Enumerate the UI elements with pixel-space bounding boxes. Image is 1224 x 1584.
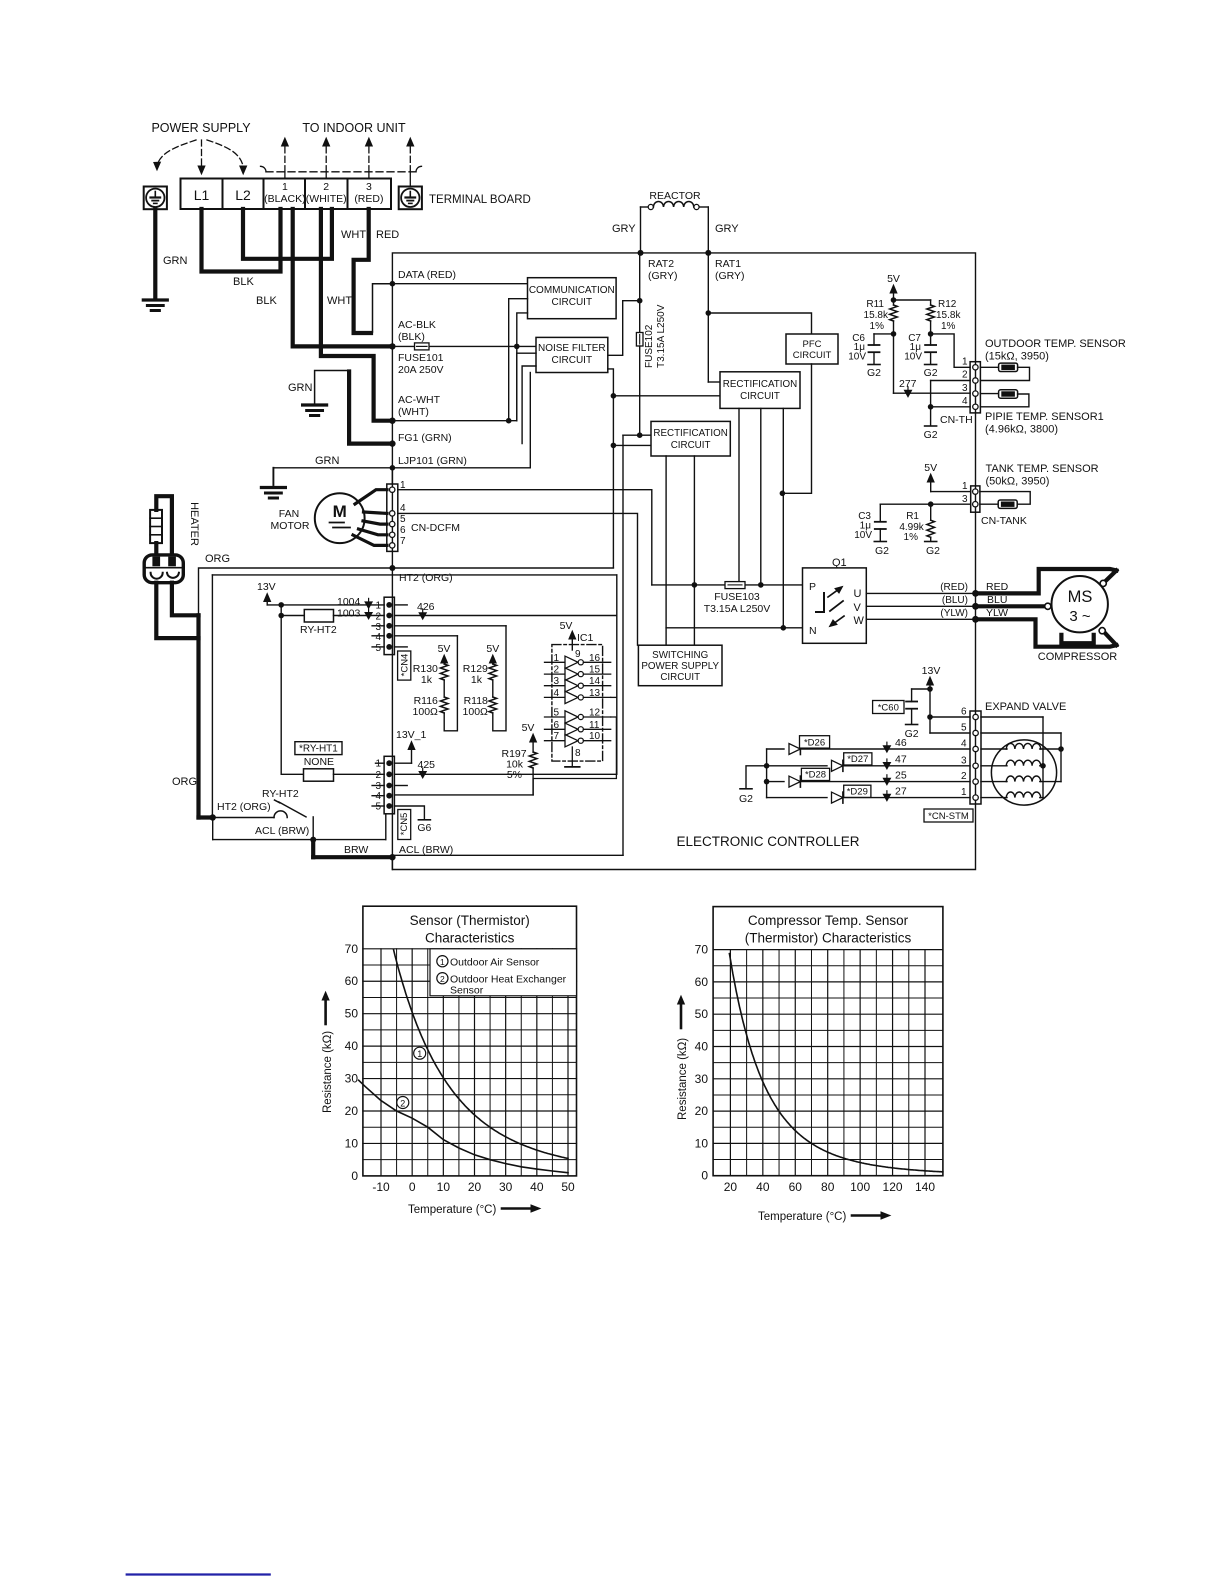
svg-text:R12: R12 [938, 299, 957, 310]
inverter gate 7 of IC1 [545, 740, 566, 742]
svg-text:0: 0 [409, 1180, 416, 1194]
wire FG1 riser to noise filter [522, 366, 536, 444]
heater plug lead left [156, 583, 198, 638]
svg-text:L1: L1 [194, 187, 210, 203]
wire FG1 GRN to ground [349, 372, 390, 444]
svg-text:BLK: BLK [233, 276, 254, 288]
switch RY-HT2 [213, 817, 274, 819]
svg-text:HT2 (ORG): HT2 (ORG) [399, 572, 453, 584]
ground G6 [418, 819, 430, 821]
block NOISE FILTER CIRCUIT [536, 337, 608, 372]
svg-text:13V: 13V [922, 665, 941, 677]
svg-text:1: 1 [417, 1049, 422, 1059]
svg-text:50: 50 [695, 1007, 709, 1021]
svg-text:14: 14 [589, 676, 601, 687]
svg-text:5: 5 [961, 723, 967, 734]
wire 13V bus down [280, 605, 282, 774]
terminal board box 1 (BLACK) [264, 179, 306, 210]
heater lead top loop [156, 496, 172, 555]
svg-text:CIRCUIT: CIRCUIT [552, 297, 593, 308]
compressor terminal bottom-right [1099, 628, 1105, 634]
svg-text:Temperature (°C): Temperature (°C) [758, 1211, 846, 1223]
svg-text:AC-WHT: AC-WHT [398, 394, 441, 406]
wire BLU to compressor [976, 604, 1045, 608]
block SWITCHING POWER SUPPLY CIRCUIT [638, 645, 722, 686]
svg-text:13: 13 [589, 688, 601, 699]
svg-text:13V_1: 13V_1 [396, 729, 427, 741]
svg-text:MS: MS [1068, 588, 1093, 606]
svg-text:140: 140 [915, 1180, 935, 1194]
svg-text:60: 60 [789, 1180, 803, 1194]
wire CN5 pin5 row to G6 [372, 805, 384, 807]
dashed arrow up terminal 2 [325, 146, 327, 172]
connector CN5 [384, 756, 394, 814]
svg-text:2: 2 [323, 181, 329, 193]
svg-text:1003: 1003 [337, 608, 361, 620]
expand valve coil row2 [981, 765, 1007, 767]
svg-text:BRW: BRW [344, 844, 368, 856]
svg-text:R11: R11 [866, 299, 884, 310]
wire rectification1 output A to P bus [738, 408, 740, 585]
svg-text:47: 47 [895, 754, 907, 766]
svg-text:T3.15A L250V: T3.15A L250V [704, 603, 771, 615]
svg-text:POWER SUPPLY: POWER SUPPLY [641, 661, 719, 672]
svg-text:70: 70 [695, 943, 709, 957]
ground G2 diodes [746, 766, 767, 789]
svg-text:ACL (BRW): ACL (BRW) [399, 844, 453, 856]
svg-text:FAN: FAN [279, 508, 299, 520]
svg-text:LJP101 (GRN): LJP101 (GRN) [398, 455, 467, 467]
left graph marker 2 [397, 1097, 409, 1109]
svg-text:40: 40 [345, 1039, 359, 1053]
wire AC-BLK junction hook to noise filter [516, 346, 518, 420]
svg-text:TERMINAL BOARD: TERMINAL BOARD [429, 194, 531, 206]
svg-text:G2: G2 [926, 545, 940, 557]
wire L1 to terminal1 BLK [202, 209, 281, 272]
svg-text:REACTOR: REACTOR [649, 190, 701, 202]
svg-text:(GRY): (GRY) [715, 270, 745, 282]
svg-text:20: 20 [724, 1180, 738, 1194]
wire node to controller bottom corner [391, 857, 393, 869]
svg-text:12: 12 [589, 708, 601, 719]
svg-text:*CN5: *CN5 [399, 813, 410, 836]
svg-text:Resistance (kΩ): Resistance (kΩ) [677, 1038, 689, 1120]
svg-text:(Thermistor) Characteristics: (Thermistor) Characteristics [745, 931, 912, 946]
compressor motor circle MS 3~ [1052, 576, 1108, 632]
wire CN-DCFM pin1 to P bus corner [398, 490, 652, 585]
node W on controller edge [972, 616, 979, 623]
left graph frame [363, 906, 577, 1176]
svg-text:BLK: BLK [256, 295, 277, 307]
svg-text:GRY: GRY [612, 223, 636, 235]
svg-text:25: 25 [895, 769, 907, 781]
wire motor to CN-DCFM pin4 [364, 512, 388, 513]
svg-text:50: 50 [561, 1180, 575, 1194]
left graph legend box [430, 949, 577, 996]
svg-text:*D29: *D29 [847, 787, 868, 798]
dashed pointer power supply to ground-left [157, 140, 196, 166]
svg-text:1k: 1k [471, 674, 483, 686]
wire ACL inner box bottom [392, 854, 623, 856]
svg-text:10V: 10V [848, 352, 866, 363]
svg-text:1k: 1k [421, 674, 433, 686]
node R12 C7 [928, 331, 934, 337]
inverter gate 2 of IC1 [545, 673, 566, 675]
capacitor C6 [874, 333, 894, 335]
capacitor C7 [930, 334, 932, 345]
boxed label *D28 [801, 768, 829, 780]
svg-text:(4.96kΩ, 3800): (4.96kΩ, 3800) [985, 424, 1058, 436]
svg-text:4: 4 [400, 503, 406, 514]
block RECTIFICATION CIRCUIT upper [720, 372, 800, 409]
svg-text:RY-HT2: RY-HT2 [262, 788, 299, 800]
wire CN-TANK pin1 [931, 491, 971, 493]
svg-text:3: 3 [366, 181, 372, 193]
svg-text:(WHT): (WHT) [398, 406, 429, 418]
svg-text:(BLACK): (BLACK) [264, 193, 305, 205]
svg-text:80: 80 [821, 1180, 835, 1194]
svg-text:CN-TANK: CN-TANK [981, 515, 1027, 527]
wire rectification1 output B to P bus [760, 408, 762, 585]
svg-text:16: 16 [589, 653, 601, 664]
inverter gate 3 of IC1 [545, 685, 566, 687]
svg-text:CIRCUIT: CIRCUIT [660, 672, 700, 683]
svg-text:*D26: *D26 [804, 737, 825, 748]
fuse FUSE103 [725, 582, 745, 589]
connector CN-TANK [971, 486, 980, 512]
terminal board box 2 (WHITE) [305, 179, 348, 210]
ground symbol FG1 [303, 403, 327, 406]
wire LJP101 GRN to ground near fan motor [273, 467, 392, 469]
svg-text:NOISE FILTER: NOISE FILTER [538, 343, 606, 354]
svg-text:15: 15 [589, 665, 601, 676]
svg-text:5V: 5V [924, 462, 937, 474]
wire RED to compressor [976, 569, 1117, 593]
wire ORG corner to relay area [199, 815, 212, 819]
wire P bus [652, 584, 803, 586]
svg-text:4: 4 [961, 739, 967, 750]
svg-text:POWER SUPPLY: POWER SUPPLY [151, 121, 251, 135]
svg-text:1: 1 [962, 481, 968, 492]
wire Q1 U output [866, 592, 973, 594]
wire relay box right edge down to 425 line [616, 575, 618, 774]
boxed label *D26 [800, 736, 830, 748]
svg-text:10: 10 [589, 731, 601, 742]
diode D26 row pin4 [767, 748, 784, 750]
svg-text:PFC: PFC [803, 339, 822, 350]
svg-text:0: 0 [351, 1169, 358, 1183]
expand valve circle [991, 740, 1056, 805]
wire comm to AC-BLK [517, 313, 528, 347]
connector CN-TH [970, 362, 980, 413]
svg-text:6: 6 [961, 707, 967, 718]
svg-text:27: 27 [895, 785, 907, 797]
svg-text:40: 40 [695, 1040, 709, 1054]
wire CN4 pin3 row to R118 loop [372, 625, 384, 627]
dashed arrow up terminal 1 [284, 146, 286, 172]
compressor terminal left [1045, 603, 1051, 609]
connector CN4 [384, 597, 394, 654]
boxed label *CN4 (rotated) [398, 651, 411, 680]
right graph frame [713, 907, 943, 1176]
wire relay box left edge riser [211, 575, 213, 818]
wire ACL thin line [212, 818, 214, 840]
svg-text:4: 4 [962, 396, 968, 407]
svg-text:T3.15A L250V: T3.15A L250V [656, 304, 667, 368]
wire HT2 ORG thin from controller [199, 568, 391, 615]
svg-text:2: 2 [440, 974, 445, 984]
arrow 5V sensor rail [893, 291, 895, 300]
svg-text:R1: R1 [906, 511, 919, 522]
svg-text:60: 60 [695, 975, 709, 989]
wire R12 to CN-TH pin1 [931, 334, 971, 367]
svg-text:1%: 1% [870, 321, 885, 332]
svg-text:0: 0 [701, 1169, 708, 1183]
wire CN4 pin5 stub [372, 646, 384, 648]
wire CN5 pin3 stubs [372, 785, 384, 787]
svg-text:7: 7 [400, 536, 406, 547]
svg-text:SWITCHING: SWITCHING [652, 650, 708, 661]
boxed label *CN5 (rotated) [398, 810, 411, 840]
svg-text:(GRY): (GRY) [648, 270, 678, 282]
heater plug lead right [172, 583, 199, 616]
fuse FUSE101 [392, 345, 536, 347]
wire AC-WHT riser to noise filter [517, 353, 536, 421]
wire HT2 rail corner [392, 567, 613, 569]
svg-text:EXPAND VALVE: EXPAND VALVE [985, 701, 1066, 713]
svg-text:Sensor (Thermistor): Sensor (Thermistor) [410, 913, 530, 928]
svg-text:MOTOR: MOTOR [271, 520, 310, 532]
svg-text:CIRCUIT: CIRCUIT [552, 355, 593, 366]
svg-text:RED: RED [376, 229, 399, 241]
wire GRN from ground terminal down [153, 209, 157, 297]
svg-text:46: 46 [895, 737, 907, 749]
left graph y axis title [324, 998, 327, 1024]
svg-text:5: 5 [554, 708, 560, 719]
node reactor left on controller top edge [638, 250, 644, 256]
node ACL BRW on controller [389, 854, 395, 860]
wire ORG heater main down [196, 615, 200, 817]
fan motor circle [315, 493, 365, 543]
node 5V split [891, 297, 897, 303]
wire IC1 out13 to rail [611, 696, 617, 698]
wire rectification1 output C to N via PFC node [782, 408, 784, 627]
node reactor right on controller top edge [705, 250, 711, 256]
wire noise filter to HT2 rail [608, 369, 614, 568]
inverter gate 4 of IC1 [545, 696, 566, 698]
svg-text:1: 1 [375, 601, 381, 612]
svg-text:Temperature (°C): Temperature (°C) [408, 1204, 496, 1216]
boxed label *C60 [873, 701, 904, 714]
svg-text:60: 60 [345, 974, 359, 988]
heater lead bottom to plug [154, 543, 158, 555]
svg-text:*CN-STM: *CN-STM [928, 811, 969, 822]
svg-text:3: 3 [554, 676, 560, 687]
svg-text:G2: G2 [924, 367, 938, 379]
wire PFC output down [782, 364, 811, 493]
left graph grid [363, 1159, 577, 1161]
wire BLK terminal1 down to AC-BLK [293, 209, 389, 346]
svg-text:10V: 10V [904, 352, 922, 363]
terminal board box L1 [181, 179, 223, 210]
svg-text:100: 100 [850, 1180, 870, 1194]
terminal board box L2 [223, 179, 264, 210]
svg-text:WHT: WHT [341, 229, 366, 241]
svg-text:Compressor Temp. Sensor: Compressor Temp. Sensor [748, 913, 909, 928]
svg-text:11: 11 [589, 720, 600, 731]
svg-text:1%: 1% [941, 321, 956, 332]
svg-text:5: 5 [400, 514, 406, 525]
svg-text:M: M [333, 502, 347, 521]
svg-text:CN-TH: CN-TH [940, 414, 973, 426]
wire CN4 pin2 426 line [394, 615, 616, 617]
svg-text:FUSE101: FUSE101 [398, 352, 444, 364]
node DATA (RED) [390, 281, 396, 287]
svg-text:TANK TEMP. SENSOR: TANK TEMP. SENSOR [986, 463, 1099, 475]
svg-text:GRN: GRN [315, 455, 340, 467]
svg-text:10V: 10V [854, 530, 872, 541]
left graph curve 1 outdoor air sensor [394, 950, 569, 1159]
block PFC CIRCUIT [786, 334, 838, 364]
svg-text:-10: -10 [372, 1180, 390, 1194]
svg-text:CIRCUIT: CIRCUIT [740, 391, 780, 402]
reactor coil [640, 207, 642, 253]
svg-text:15.8k: 15.8k [936, 310, 961, 321]
thermistor outdoor temp sensor [980, 366, 998, 368]
svg-text:20: 20 [468, 1180, 482, 1194]
relay coil RY-HT2 [281, 615, 304, 617]
svg-text:1: 1 [961, 787, 967, 798]
svg-text:40: 40 [756, 1180, 770, 1194]
svg-text:5V: 5V [438, 643, 451, 655]
svg-text:RED: RED [986, 581, 1009, 593]
svg-text:L2: L2 [235, 187, 251, 203]
wire N bus [666, 627, 802, 629]
svg-text:ELECTRONIC CONTROLLER: ELECTRONIC CONTROLLER [676, 834, 859, 849]
svg-text:U: U [854, 588, 862, 600]
wire CN-DCFM pin4 to switching supply [398, 513, 638, 645]
svg-text:100Ω: 100Ω [463, 706, 489, 718]
wire CN-STM pin6 to valve rows [981, 716, 1043, 718]
svg-text:Characteristics: Characteristics [425, 931, 515, 946]
arrow 13V expand [929, 683, 931, 689]
svg-text:Sensor: Sensor [450, 985, 484, 997]
svg-text:5V: 5V [486, 643, 499, 655]
capacitor C3 [879, 504, 881, 522]
svg-text:G2: G2 [875, 545, 889, 557]
resistor R12 [930, 300, 932, 305]
svg-text:*D27: *D27 [847, 754, 868, 765]
svg-text:COMPRESSOR: COMPRESSOR [1038, 651, 1118, 663]
block COMMUNICATION CIRCUIT [528, 278, 617, 319]
svg-text:5: 5 [375, 643, 381, 654]
dashed bus line to indoor unit [266, 171, 416, 173]
wire motor to CN-DCFM pin6 [359, 529, 388, 535]
svg-text:(BLK): (BLK) [398, 331, 425, 343]
node 13V C60 [927, 686, 933, 692]
svg-text:426: 426 [417, 601, 435, 613]
node AC-WHT [389, 418, 395, 424]
svg-text:10: 10 [437, 1180, 451, 1194]
ground terminal symbol left [144, 187, 167, 210]
wire Q1 W output [866, 618, 973, 620]
ground symbol LJP101 [261, 486, 285, 489]
svg-text:*RY-HT1: *RY-HT1 [299, 744, 338, 755]
svg-text:2: 2 [400, 1099, 405, 1109]
wire diode bus [766, 749, 768, 798]
arrow 5V tank [930, 480, 932, 492]
expand valve coil row1 [981, 748, 1007, 750]
svg-text:70: 70 [345, 942, 359, 956]
node AC-BLK [389, 343, 395, 349]
svg-text:G2: G2 [924, 429, 938, 441]
svg-text:(RED): (RED) [354, 193, 383, 205]
dashed pointer power supply to L2 [207, 140, 243, 166]
svg-text:CN-DCFM: CN-DCFM [411, 522, 460, 534]
svg-text:G2: G2 [905, 728, 919, 740]
wire relay box top edge [212, 574, 616, 576]
svg-text:(50kΩ, 3950): (50kΩ, 3950) [986, 476, 1050, 488]
right graph curve compressor sensor [729, 954, 942, 1172]
wire BRW thick [311, 840, 315, 858]
terminal board box 3 (RED) [348, 179, 392, 210]
wire rail to rectification1 input [613, 395, 720, 397]
svg-text:IC1: IC1 [577, 632, 594, 644]
wire rectification2 output to switching supply [665, 456, 667, 645]
boxed label *CN-STM [924, 809, 973, 822]
svg-text:30: 30 [695, 1072, 709, 1086]
svg-text:*D28: *D28 [805, 770, 826, 781]
svg-text:ORG: ORG [172, 776, 197, 788]
svg-text:2: 2 [375, 770, 381, 781]
svg-text:30: 30 [345, 1072, 359, 1086]
svg-text:TO INDOOR UNIT: TO INDOOR UNIT [302, 121, 406, 135]
svg-text:10: 10 [695, 1136, 709, 1150]
diode D29 row pin1 [767, 797, 827, 799]
svg-text:RECTIFICATION: RECTIFICATION [723, 379, 797, 390]
block RECTIFICATION CIRCUIT lower [651, 421, 730, 456]
svg-text:425: 425 [418, 759, 436, 771]
boxed label *RY-HT1 [295, 742, 342, 755]
svg-text:*C60: *C60 [878, 703, 899, 714]
thermistor tank sensor loop [980, 492, 1030, 505]
svg-text:6: 6 [400, 525, 406, 536]
svg-text:4: 4 [375, 632, 381, 643]
svg-text:15.8k: 15.8k [864, 310, 889, 321]
resistor R11 [893, 300, 895, 305]
svg-text:(RED): (RED) [940, 582, 968, 593]
svg-text:V: V [854, 602, 862, 614]
wire L2 to terminal2 WHT [243, 209, 332, 259]
fuse FUSE102 [639, 253, 641, 333]
svg-text:G2: G2 [739, 793, 753, 805]
wire rail to rectification2 input [613, 444, 651, 446]
svg-text:G6: G6 [417, 822, 431, 834]
svg-text:(15kΩ, 3950): (15kΩ, 3950) [985, 351, 1049, 363]
svg-text:RAT1: RAT1 [715, 258, 741, 270]
svg-text:3: 3 [962, 494, 968, 505]
diode D28 row pin2 [767, 781, 784, 783]
diode D27 row pin3 [767, 765, 827, 767]
svg-text:5V: 5V [560, 620, 573, 632]
svg-text:P: P [809, 581, 816, 593]
wire LJP101 riser to noise filter bottom [529, 373, 531, 468]
wire FUSE102 to rectification2 input [623, 434, 651, 436]
wire ACL riser to CN5 [385, 814, 387, 840]
svg-text:COMMUNICATION: COMMUNICATION [529, 285, 615, 296]
connector CN-DCFM [391, 468, 393, 484]
heater plug [144, 555, 183, 583]
